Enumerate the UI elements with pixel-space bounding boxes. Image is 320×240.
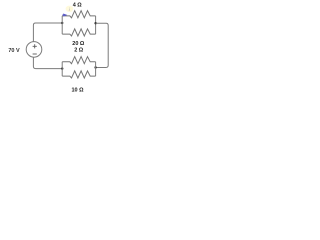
current arrow i (blue) [62,14,64,16]
wire: right rail connecting top pair to bottom pair [96,23,109,67]
svg-text:4 Ω: 4 Ω [73,3,83,9]
wire: source top to left node of top pair [33,23,62,42]
node B junction dot [94,22,96,24]
wire: right node vertical (top pair) [95,16,97,34]
node C junction dot [94,66,96,68]
svg-text:20 Ω: 20 Ω [72,41,85,47]
wire: left node vertical (bottom pair) [61,62,63,76]
plus terminal mark [33,44,37,48]
wire: source bottom to left node of bottom pair [33,57,62,68]
resistor R4 10 ohm [62,71,95,78]
voltage source V1 70 V [26,42,42,58]
resistor R2 20 ohm [62,29,95,36]
background [0,0,120,96]
svg-text:10 Ω: 10 Ω [71,88,84,94]
resistor R1 4 ohm [62,11,95,18]
node D junction dot [61,67,63,69]
minus terminal mark [33,53,37,55]
highlight on current label [66,6,74,12]
resistor R3 2 ohm [62,57,95,64]
wire: right node vertical (bottom pair) [95,62,97,76]
svg-text:2 Ω: 2 Ω [74,48,84,54]
wire: left node vertical (top pair) [61,16,63,34]
node A junction dot [61,22,63,24]
svg-text:70 V: 70 V [8,48,20,54]
